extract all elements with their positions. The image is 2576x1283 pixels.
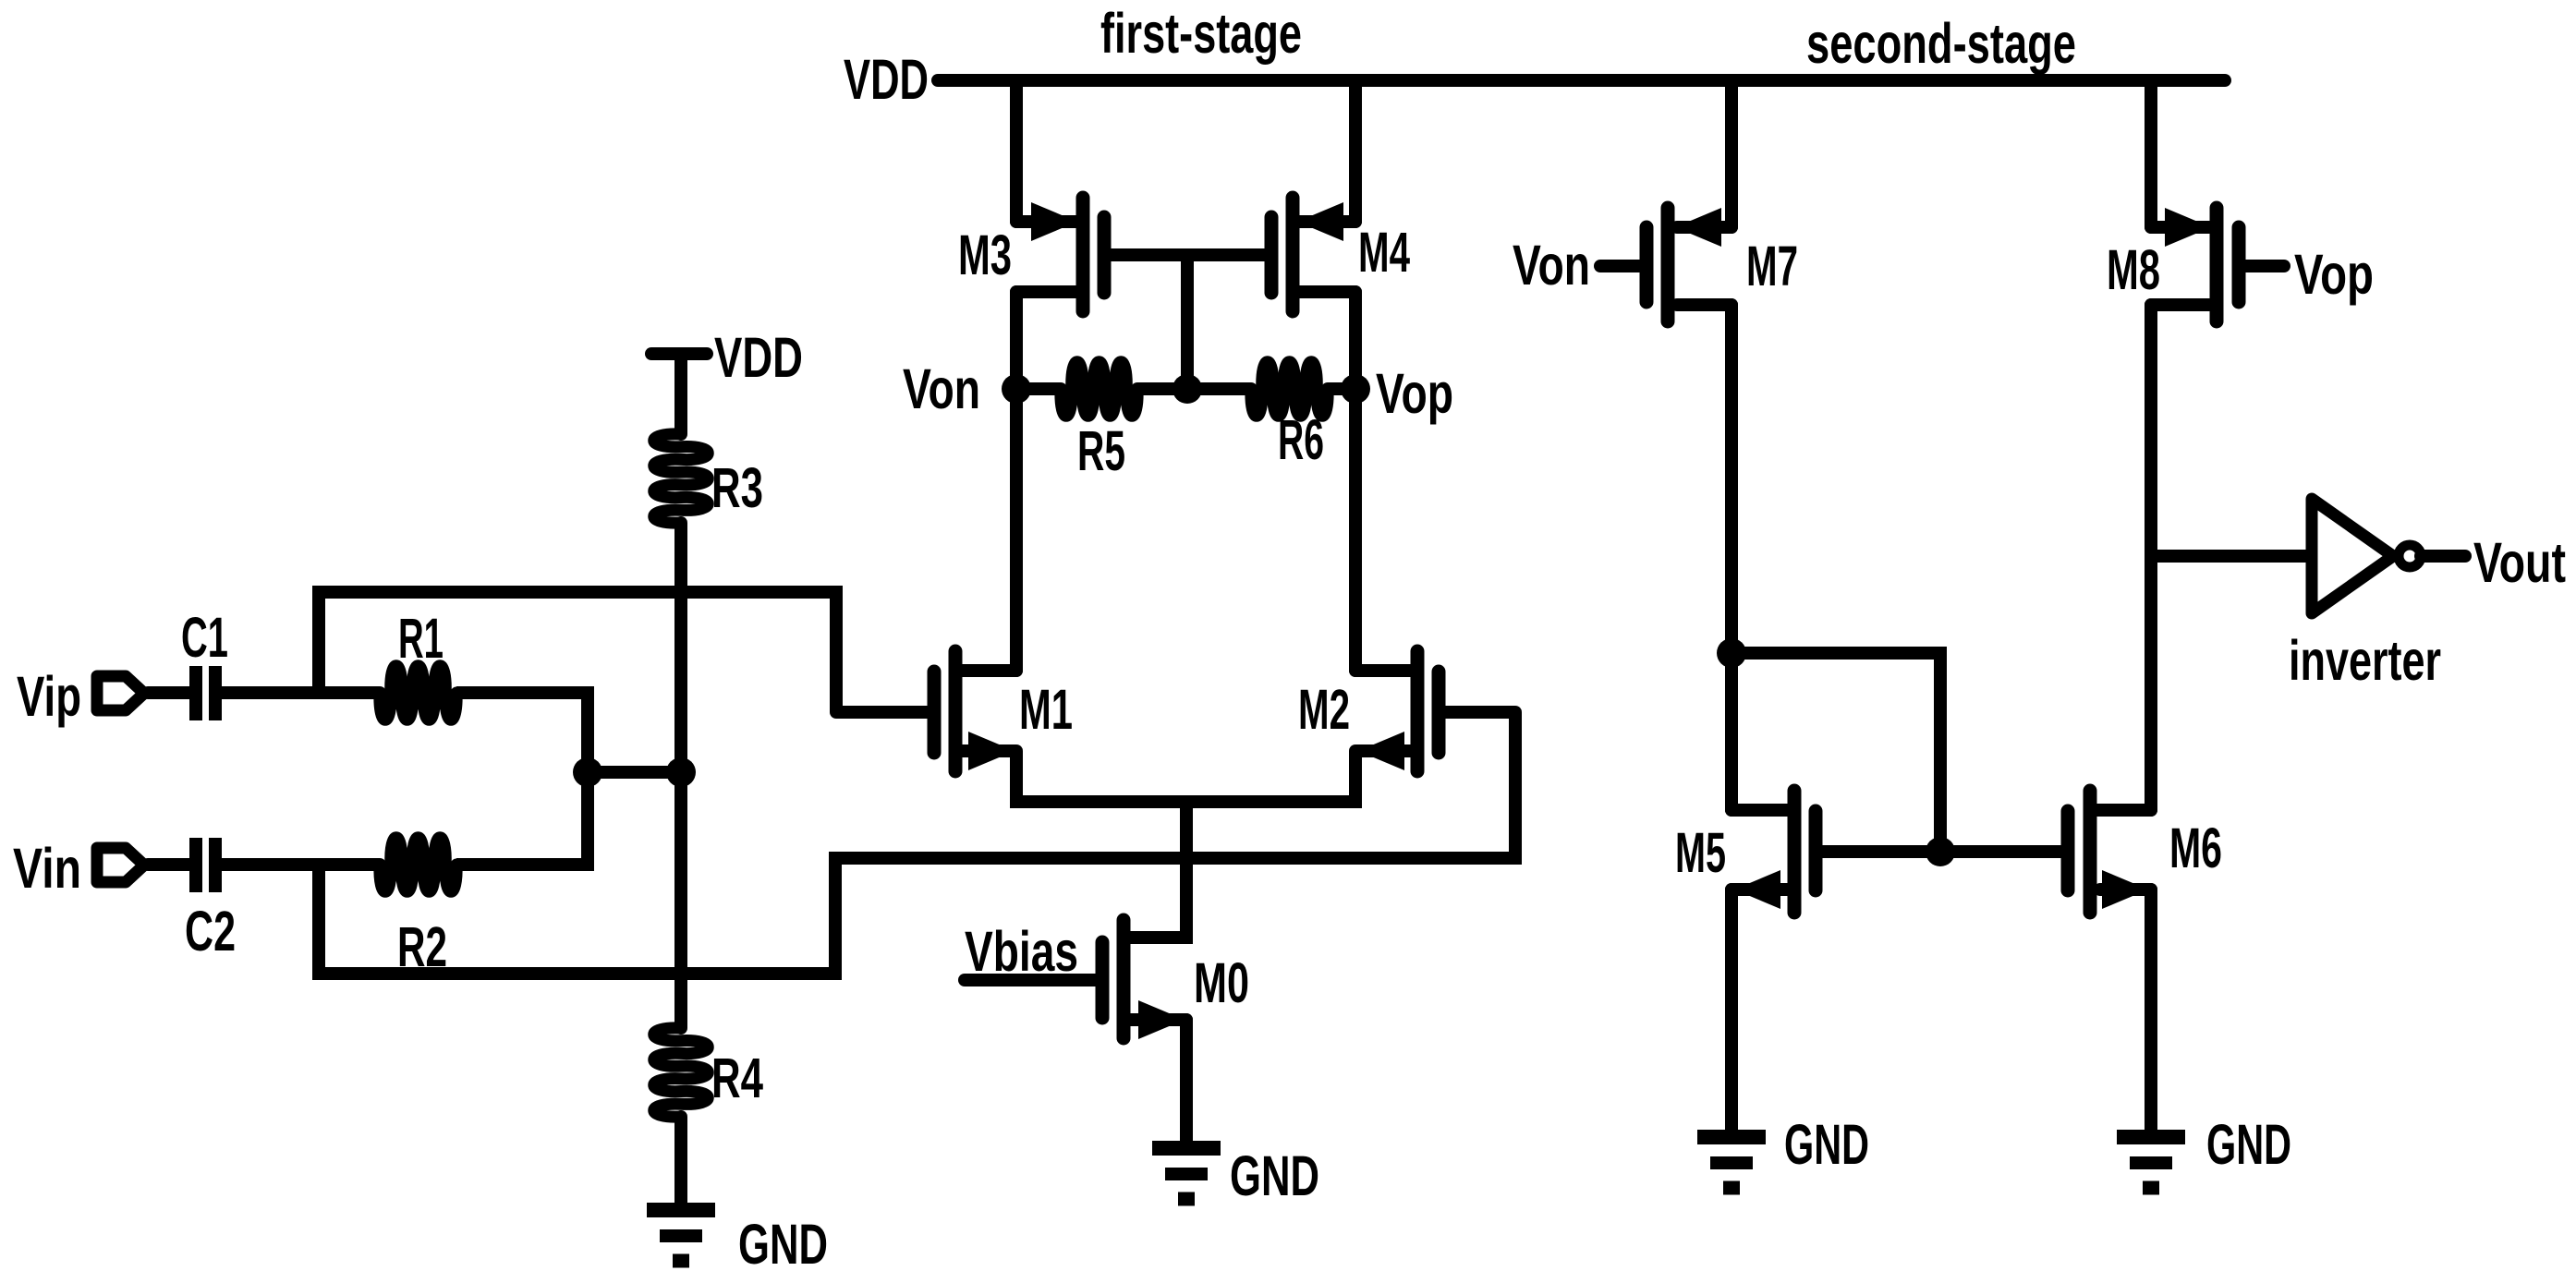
inverter <box>2312 499 2465 613</box>
wire Von column <box>1010 292 1023 671</box>
node Von <box>1002 374 1031 404</box>
svg-text:second-stage: second-stage <box>1806 12 2076 75</box>
wire M5/M6 gate line <box>1822 845 2061 858</box>
svg-text:GND: GND <box>1784 1113 1869 1176</box>
wire R4 to ground <box>674 1117 687 1204</box>
svg-text:M6: M6 <box>2169 817 2222 879</box>
svg-text:R4: R4 <box>711 1047 763 1109</box>
port Vip <box>97 676 144 710</box>
wire VDD drop to M8 source <box>2145 80 2157 227</box>
transistor M8 <box>2151 208 2284 321</box>
node bias right <box>666 757 696 787</box>
wire Vop column <box>1349 292 1362 671</box>
svg-text:Vip: Vip <box>17 665 81 728</box>
svg-text:GND: GND <box>738 1213 828 1276</box>
svg-text:M0: M0 <box>1194 951 1249 1014</box>
ground under M5 <box>1697 1130 1766 1144</box>
wire VDD drop to M7 source <box>1725 80 1738 227</box>
svg-text:M2: M2 <box>1298 678 1350 741</box>
svg-text:M1: M1 <box>1019 678 1073 741</box>
ground under M6 <box>2117 1130 2185 1144</box>
svg-text:Vbias: Vbias <box>965 920 1078 983</box>
wire to inverter input <box>2151 550 2312 563</box>
svg-text:R1: R1 <box>398 607 444 670</box>
svg-text:M7: M7 <box>1746 235 1798 297</box>
transistor M3 <box>1016 198 1187 311</box>
wire bottom rail and M2 gate feed <box>319 712 1515 974</box>
wire C2 to R2 <box>222 858 380 871</box>
transistor M7 <box>1600 208 1732 321</box>
svg-text:Vop: Vop <box>2294 243 2374 306</box>
transistor M5 <box>1732 791 1829 913</box>
node M7 drain <box>1717 638 1746 668</box>
VDD rail <box>938 74 2225 87</box>
wire top rail to M1 gate <box>319 592 836 712</box>
wire diode loop <box>1732 653 1940 852</box>
wire M0 source to ground <box>1180 1020 1193 1142</box>
resistor R4 <box>654 1028 709 1117</box>
svg-text:Von: Von <box>1513 234 1590 297</box>
svg-text:inverter: inverter <box>2289 629 2441 692</box>
wire C1 to R1 <box>222 686 380 699</box>
transistor M6 <box>2068 791 2151 913</box>
wire M6 source to ground <box>2145 890 2157 1131</box>
svg-text:M3: M3 <box>958 224 1012 286</box>
wire M8 drain column <box>2145 305 2157 810</box>
ground under M0 <box>1152 1141 1221 1156</box>
wire link bias nodes <box>588 766 681 779</box>
transistor M1 <box>836 651 1016 771</box>
capacitor C1 <box>196 666 215 720</box>
svg-text:Vop: Vop <box>1376 362 1453 425</box>
svg-text:C1: C1 <box>181 606 228 669</box>
svg-text:VDD: VDD <box>844 48 929 111</box>
node gate line <box>1926 837 1955 866</box>
node Vop <box>1341 374 1370 404</box>
transistor M4 <box>1349 80 1362 222</box>
port Vin <box>97 848 144 882</box>
wire VDD stub to R3 <box>674 354 687 434</box>
wire Vip to C1 <box>148 686 190 699</box>
svg-text:M8: M8 <box>2107 238 2160 301</box>
wire R2 to corner and up to bias node <box>456 772 588 865</box>
svg-text:Vin: Vin <box>13 837 81 900</box>
ground under R4 <box>647 1203 715 1217</box>
capacitor C2 <box>196 838 215 892</box>
wire M3/M4 gate riser <box>1181 255 1194 389</box>
svg-text:VDD: VDD <box>714 326 803 389</box>
wire R3 to R4 column <box>674 523 687 1028</box>
svg-text:C2: C2 <box>185 900 236 962</box>
svg-text:R5: R5 <box>1077 419 1125 482</box>
wire Vin to C2 <box>148 858 190 871</box>
resistor R1 <box>380 666 456 720</box>
svg-text:GND: GND <box>2206 1113 2291 1176</box>
svg-text:Vout: Vout <box>2473 531 2566 594</box>
wire M5 source to ground <box>1725 890 1738 1131</box>
wire tail rail <box>1016 751 1355 802</box>
svg-text:first-stage: first-stage <box>1100 2 1302 65</box>
resistor R2 <box>380 838 456 892</box>
resistor R6 <box>1187 362 1355 417</box>
svg-text:M5: M5 <box>1675 821 1726 884</box>
resistor R5 <box>1016 362 1187 417</box>
transistor M0 <box>965 798 1186 1039</box>
node bias left <box>573 757 602 787</box>
VDD stub for R3 <box>651 347 707 360</box>
node center R5/R6 <box>1173 374 1202 404</box>
svg-text:R3: R3 <box>711 456 763 519</box>
svg-text:Von: Von <box>903 357 980 420</box>
wire R1 to corner and down to bias node <box>456 693 588 772</box>
svg-text:R6: R6 <box>1278 408 1324 471</box>
wire VDD drop to M3 source <box>1010 80 1023 222</box>
svg-text:M4: M4 <box>1358 221 1410 284</box>
svg-text:GND: GND <box>1230 1144 1319 1207</box>
wire M7 drain column <box>1725 305 1738 810</box>
transistor M2 <box>1355 651 1515 771</box>
resistor R3 <box>654 434 709 523</box>
